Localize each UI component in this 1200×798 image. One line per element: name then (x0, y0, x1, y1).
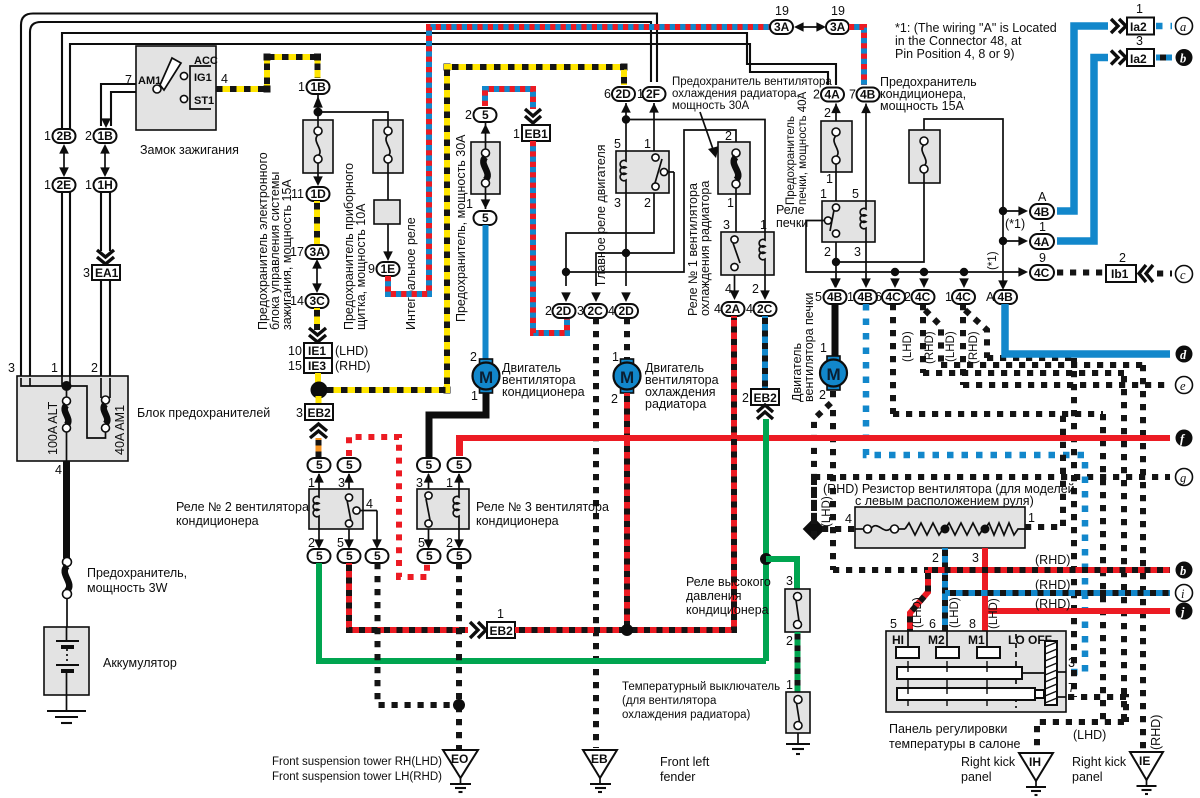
main engine relay coil (620, 151, 626, 193)
svg-text:Pin Position 4, 8 or 9): Pin Position 4, 8 or 9) (895, 47, 1015, 61)
svg-text:3A: 3A (774, 20, 790, 34)
green junction dot (760, 553, 772, 565)
svg-text:кондиционера: кондиционера (502, 385, 585, 399)
svg-text:2: 2 (742, 391, 749, 405)
svg-text:(LHD): (LHD) (988, 598, 1000, 629)
svg-text:5: 5 (456, 458, 463, 472)
svg-text:1: 1 (446, 476, 453, 490)
svg-text:b: b (1180, 564, 1186, 578)
arrow into 1D (313, 176, 323, 186)
wire dot to 4A 1 right (1003, 236, 1028, 246)
LHD labels at panel drops (vertical) (912, 597, 1000, 629)
fuse block internal wires pin3 to junction (21, 192, 70, 386)
black dashed 4C2 straight to row373 (920, 304, 926, 373)
svg-text:4: 4 (714, 302, 721, 316)
black dashed link 4C9 to Ib1 (1057, 270, 1104, 276)
arrow into 1E (383, 251, 393, 261)
big junction dot (311, 382, 328, 399)
black dashed pin7 to 1126 (1068, 697, 1126, 722)
svg-text:2: 2 (786, 634, 793, 648)
svg-text:3: 3 (338, 476, 345, 490)
connector 4B A right (1030, 190, 1054, 219)
connector 1D (291, 187, 330, 201)
svg-text:9: 9 (1039, 251, 1046, 265)
text temp switch (622, 681, 780, 721)
svg-text:2: 2 (824, 106, 831, 120)
blue dotted wire 4B1 down and right (866, 304, 1085, 672)
wire relay1 pin4 to 2A (730, 275, 740, 300)
svg-text:с левым расположением руля): с левым расположением руля) (855, 494, 1034, 508)
blue wire 4BA down to d row (1005, 304, 1170, 354)
control panel pin7 (1057, 681, 1075, 697)
svg-text:15: 15 (288, 359, 302, 373)
yellow stub junction to EB2 (316, 396, 322, 404)
svg-text:5: 5 (346, 458, 353, 472)
junction dot EB2 line (621, 624, 633, 636)
chevron into Ia2 1 (1111, 19, 1126, 33)
svg-text:1: 1 (1136, 2, 1143, 16)
arrow pair 3A-3C (312, 259, 322, 293)
svg-text:c: c (1180, 268, 1186, 282)
battery feed thick wire (63, 461, 70, 558)
svg-text:давления: давления (686, 589, 742, 603)
svg-text:M: M (620, 368, 634, 387)
relay3 ovals above (417, 458, 471, 472)
svg-text:100A ALT: 100A ALT (46, 401, 60, 455)
svg-text:Реле № 3 вентилятора: Реле № 3 вентилятора (476, 500, 609, 514)
svg-text:Right kick: Right kick (1072, 755, 1127, 769)
svg-text:2: 2 (819, 388, 826, 402)
connector 1B left (85, 129, 117, 143)
svg-text:M1: M1 (968, 633, 985, 647)
yellow wire big junction to 2D6 (327, 67, 624, 390)
relay3 coil (453, 489, 459, 529)
svg-text:*1: (The wiring "A" is Locate: *1: (The wiring "A" is Located (895, 21, 1057, 35)
svg-text:4A: 4A (1034, 235, 1050, 249)
text right kick panel 1 (961, 755, 1016, 784)
AC fuse 15A box (909, 130, 940, 186)
wire main relay pin5 to 2D6 with dot (621, 103, 631, 151)
red wire resistor pin3 to panel pin8 (972, 548, 985, 631)
circle letter e (1176, 377, 1193, 394)
blue-red wire 1E to 3A 3A to 4B7 (388, 27, 770, 294)
svg-text:(LHD): (LHD) (912, 597, 924, 628)
text fuse 30A (vertical) (454, 134, 468, 322)
heater fuse 40A box (821, 121, 852, 201)
svg-text:EB1: EB1 (525, 127, 549, 141)
black dashed 4C2 jog branch to row365 (925, 310, 941, 365)
circle letter d (1176, 346, 1193, 363)
svg-text:EA1: EA1 (95, 266, 119, 280)
connector 2C 4 (746, 302, 777, 316)
relay3 ovals below (418, 549, 471, 563)
svg-text:4B: 4B (827, 290, 843, 304)
main relay pin labels (614, 137, 651, 210)
ground IH triangle (1019, 753, 1053, 795)
svg-text:4: 4 (845, 512, 852, 526)
svg-text:2B: 2B (57, 129, 73, 143)
connector 2D 4 (608, 304, 638, 318)
svg-text:10: 10 (288, 344, 302, 358)
svg-text:IE1: IE1 (308, 344, 326, 358)
svg-text:2: 2 (308, 536, 315, 550)
svg-text:1: 1 (820, 341, 827, 355)
svg-text:4C: 4C (1034, 266, 1050, 280)
fuse 40A AM1 (101, 378, 110, 432)
fuse 30A AC box (471, 122, 500, 209)
temp switch box (786, 692, 810, 733)
blue-red wire EB1 to 2D2 (533, 141, 567, 333)
black dashed 4C1 straight to e-row (960, 304, 966, 385)
svg-text:1: 1 (847, 290, 854, 304)
ground EB triangle (583, 750, 617, 792)
black dashed 4C1 jog branch to row358 (965, 310, 987, 358)
svg-text:IG1: IG1 (194, 72, 212, 84)
relay2 pin labels (308, 476, 373, 550)
svg-text:d: d (1180, 348, 1187, 362)
connector 1B top (298, 80, 330, 94)
wire coil dot to relay1 coil (630, 120, 765, 233)
resistor box (855, 507, 1025, 548)
green wire riser EB2mini to green row (763, 419, 769, 661)
relay3 switch (425, 492, 432, 527)
blue-black dashes to circle b (1156, 55, 1172, 61)
text wiring A note (895, 21, 1057, 61)
text control panel title (889, 722, 1020, 751)
svg-text:19: 19 (775, 4, 789, 18)
svg-text:5: 5 (426, 549, 433, 563)
vertical dashed 1074 to pin7 row (1071, 358, 1077, 697)
svg-text:Ia2: Ia2 (1130, 20, 1147, 34)
vertical dashed 1143 to IE (1140, 365, 1146, 751)
green-black wire pressure switch to temp switch (795, 632, 801, 692)
radiator fan motor (614, 359, 641, 393)
red wire main f-line (459, 438, 1170, 456)
circle letter a (1176, 18, 1193, 35)
relay2 coil (313, 489, 319, 529)
svg-text:4C: 4C (915, 290, 931, 304)
control panel hatch connector (1045, 641, 1057, 705)
svg-text:1: 1 (298, 80, 305, 94)
connector 4C 9 right (1030, 251, 1054, 280)
junction dots on 4C row (891, 268, 968, 276)
svg-text:5: 5 (614, 137, 621, 151)
svg-text:2C: 2C (588, 304, 604, 318)
red dotted wire relay2 oval to relay3 pin5 oval (349, 437, 427, 577)
svg-text:Ib1: Ib1 (1111, 267, 1129, 281)
svg-text:4: 4 (725, 282, 732, 296)
svg-text:EB: EB (591, 752, 608, 766)
svg-text:5: 5 (426, 458, 433, 472)
svg-text:1: 1 (826, 172, 833, 186)
chevron left after Ib1 (1139, 265, 1153, 282)
svg-text:Предохранитель вентилятора: Предохранитель вентилятора (672, 76, 832, 88)
svg-text:panel: panel (1072, 770, 1103, 784)
pressure switch box (785, 589, 810, 632)
wire dot to 4B A right (1003, 206, 1028, 216)
main engine relay switch (652, 154, 674, 190)
svg-text:1: 1 (1039, 220, 1046, 234)
svg-text:4: 4 (55, 463, 62, 477)
wire y253 row to 2C3 (591, 172, 674, 302)
svg-text:5: 5 (346, 549, 353, 563)
wire junction to fuse2 (318, 112, 388, 120)
text heater relay (776, 203, 808, 230)
junction dot below 1B (314, 108, 323, 117)
svg-text:охлаждения радиатора: охлаждения радиатора (698, 181, 712, 316)
svg-text:2: 2 (932, 551, 939, 565)
svg-text:M: M (479, 368, 493, 387)
black dashed 4C6 down (890, 304, 896, 414)
svg-text:5: 5 (316, 458, 323, 472)
svg-text:7: 7 (849, 88, 856, 102)
dashed row y365 (941, 362, 1143, 368)
svg-text:1: 1 (1028, 511, 1035, 525)
svg-text:A: A (986, 290, 995, 304)
text fuse dashboard (vertical) (342, 163, 368, 330)
svg-text:1: 1 (786, 678, 793, 692)
connector IE1 (288, 343, 368, 358)
svg-text:Панель регулировки: Панель регулировки (889, 722, 1007, 736)
svg-text:Предохранитель: Предохранитель (785, 116, 797, 205)
fuse block box Блок предохранителей (17, 376, 128, 461)
blue-black wire resistor pin2 to panel pin6 (932, 548, 945, 631)
svg-text:Температурный выключатель: Температурный выключатель (622, 681, 780, 693)
black dashed relay2 pin4 to EO row (378, 563, 456, 705)
connector 3C (290, 294, 329, 308)
svg-text:(RHD): (RHD) (924, 331, 936, 364)
svg-text:5: 5 (890, 617, 897, 631)
connector 1H (85, 178, 117, 192)
connector 3A 19 right (826, 4, 849, 34)
svg-text:1B: 1B (311, 80, 327, 94)
svg-text:EB2: EB2 (490, 624, 514, 638)
connector 4C 6 (875, 290, 905, 304)
svg-text:HI: HI (892, 633, 904, 647)
svg-text:3: 3 (416, 476, 423, 490)
arrow pair 3A-3A horizontal (794, 22, 826, 32)
control panel bar1 (897, 667, 1045, 679)
dashed row y414 (893, 411, 1103, 417)
connector Ia2 3 (1127, 34, 1154, 66)
svg-text:6: 6 (875, 290, 882, 304)
wire pin2 dot to AC fuse bottom (836, 186, 924, 262)
arrow *1 vertical into 4BA bottom (998, 280, 1008, 290)
control panel contact labels (892, 633, 1052, 647)
arrow pair 1B-1H (100, 144, 110, 177)
svg-text:5: 5 (337, 536, 344, 550)
text heater fuse 40A (vertical) (785, 91, 809, 205)
svg-text:Front suspension tower RH(LHD): Front suspension tower RH(LHD) (272, 756, 442, 768)
fuse 100A ALT label (46, 401, 60, 455)
temp switch ground (786, 733, 810, 754)
svg-text:2F: 2F (646, 87, 660, 101)
heater relay pin labels (820, 187, 861, 259)
connector 4B 1 (847, 290, 877, 304)
svg-text:2: 2 (1119, 251, 1126, 265)
svg-text:40A AM1: 40A AM1 (113, 405, 127, 455)
svg-text:1: 1 (44, 129, 51, 143)
ignition bracket (190, 66, 211, 109)
black dashed heater motor pin2 jog to resistor column (814, 391, 833, 524)
svg-text:a: a (1180, 20, 1186, 34)
connector 5 above fuse30A (465, 108, 497, 122)
battery box (44, 627, 89, 695)
text fuse radiator fan 30A (672, 76, 832, 112)
wire heater relay left pin to 4C row (806, 221, 1024, 273)
chevron into Ia2 3 (1111, 51, 1126, 65)
svg-text:3: 3 (577, 304, 584, 318)
svg-text:8: 8 (969, 617, 976, 631)
svg-text:3: 3 (1136, 34, 1143, 48)
svg-text:3: 3 (8, 361, 15, 375)
svg-text:fender: fender (660, 770, 695, 784)
svg-text:кондиционера: кондиционера (686, 603, 769, 617)
svg-text:Реле высокого: Реле высокого (686, 575, 771, 589)
chevron into EB2 inline (470, 622, 486, 638)
yellow wire ignition pin4 to 1B (216, 57, 318, 89)
svg-text:кондиционера: кондиционера (176, 514, 259, 528)
svg-text:кондиционера: кондиционера (476, 514, 559, 528)
yellow wire 3C to IE1 (314, 308, 320, 330)
svg-text:2: 2 (725, 129, 732, 143)
relay1 coil (759, 232, 765, 275)
connector 2F 1 (637, 87, 666, 101)
blue dashes to circle a (1156, 23, 1172, 30)
svg-text:4: 4 (746, 302, 753, 316)
heater relay box (822, 201, 875, 242)
resistor pin labels (845, 511, 1035, 526)
circle letter b bottom (1176, 562, 1193, 579)
svg-text:Интегральное реле: Интегральное реле (404, 217, 418, 330)
wire dot566 to fuse radiator 30A (566, 130, 736, 272)
svg-text:4B: 4B (858, 290, 874, 304)
svg-text:19: 19 (831, 4, 845, 18)
dashes to circle c (1157, 271, 1172, 277)
svg-text:(RHD): (RHD) (1149, 715, 1163, 750)
svg-text:(LHD): (LHD) (821, 496, 833, 527)
wire relay1 pin2 to 2C (760, 275, 770, 300)
svg-text:(LHD): (LHD) (945, 331, 957, 362)
svg-text:Right kick: Right kick (961, 755, 1016, 769)
text front left fender (660, 755, 710, 784)
svg-text:2E: 2E (57, 178, 72, 192)
text main engine relay (vertical) (594, 144, 608, 285)
svg-text:5: 5 (374, 549, 381, 563)
control panel box (886, 631, 1066, 712)
svg-text:(RHD): (RHD) (335, 359, 370, 373)
svg-text:зажигания, мощность 15А: зажигания, мощность 15А (280, 179, 294, 330)
chevron into EA1 (97, 250, 114, 264)
blue-black wire 2C4 to EB2 (762, 316, 768, 389)
arrow into 4C9 (1018, 267, 1028, 277)
svg-text:1: 1 (612, 350, 619, 364)
svg-text:щитка, мощность 10А: щитка, мощность 10А (354, 203, 368, 330)
svg-text:2: 2 (465, 108, 472, 122)
svg-text:1: 1 (945, 290, 952, 304)
wire AC fuse top to *1 vertical (924, 119, 1003, 288)
blue-red wire 3A to 4B7 (849, 27, 864, 85)
svg-text:1: 1 (760, 218, 767, 232)
fuse dashboard 10A box (373, 120, 403, 200)
svg-text:3: 3 (614, 196, 621, 210)
blue wire to AC fan motor (483, 225, 489, 362)
red-black wire radiator motor pin2 to EB2 line (624, 393, 630, 630)
svg-text:2: 2 (752, 282, 759, 296)
relay2 ovals below (308, 549, 389, 563)
heater relay coil (860, 201, 866, 242)
horizontal dashed to IH (1037, 722, 1124, 752)
relay1 radiator fan box (721, 232, 774, 275)
svg-text:4B: 4B (860, 88, 876, 102)
svg-text:Предохранитель,: Предохранитель, (87, 566, 187, 580)
fuse 40A AM1 label (113, 405, 127, 455)
svg-text:мощность 3W: мощность 3W (87, 581, 168, 595)
wire main relay pin2 to dot566 (561, 193, 654, 302)
ground IE triangle (1130, 752, 1163, 794)
svg-text:5: 5 (482, 108, 489, 122)
heater relay switch (824, 204, 839, 237)
relay2 switch (345, 494, 377, 527)
yellow stub IE3 to big junction (315, 373, 321, 384)
wire EA1 to fuse block pin2 (101, 280, 110, 378)
ignition lever (160, 58, 181, 90)
resistor input junction dot (803, 518, 826, 541)
control panel pin numbers (890, 617, 976, 631)
connector 4B A (986, 290, 1017, 304)
svg-text:1: 1 (820, 187, 827, 201)
svg-text:A: A (1038, 190, 1047, 204)
circle letter j (1176, 603, 1193, 620)
thick black wire AC motor pin1 to relay3 (429, 393, 486, 457)
control panel LO dashed line (1015, 634, 1017, 708)
radiator motor pin labels (611, 350, 619, 406)
svg-text:Front suspension tower LH(RHD): Front suspension tower LH(RHD) (272, 771, 442, 783)
arrow pair 2B-2E (59, 144, 69, 177)
svg-text:3: 3 (786, 574, 793, 588)
e row dashed to circle e (963, 382, 1170, 388)
relay3 AC fan box (417, 489, 469, 529)
svg-text:вентилятора печки: вентилятора печки (802, 293, 816, 402)
dashes junction to resistor pin4 (822, 526, 855, 532)
svg-text:Реле: Реле (776, 203, 805, 217)
blue thick wire 4BA to Ia2 1 (1057, 26, 1108, 211)
svg-text:печки: печки (776, 216, 808, 230)
svg-text:5: 5 (316, 549, 323, 563)
relay1 pin labels (723, 218, 767, 296)
labels LHD RHD mesh (902, 331, 980, 364)
svg-text:2A: 2A (725, 302, 741, 316)
wire 1H to EA1 (101, 192, 110, 251)
chevron below EB2 mini (757, 405, 773, 419)
vertical dashed 1124 down (1121, 376, 1127, 722)
wire 4A to heater fuse with arrow (824, 104, 841, 122)
fuse radiator pin labels (725, 129, 734, 210)
yellow corner squares (264, 54, 628, 394)
svg-text:4C: 4C (956, 290, 972, 304)
red-black drop to panel pin5 (910, 570, 928, 631)
connector EB2 main (296, 404, 333, 420)
chevron below EB2 (310, 424, 327, 438)
svg-text:M: M (827, 365, 841, 384)
svg-text:1H: 1H (98, 178, 113, 192)
svg-text:печки, мощность 40А: печки, мощность 40А (797, 91, 809, 205)
svg-text:2: 2 (446, 536, 453, 550)
connector 2C 3 (577, 304, 607, 318)
wire heater relay pin2 to 4B5 with dot (831, 242, 841, 288)
pressure switch pin labels (786, 574, 793, 648)
svg-text:Замок зажигания: Замок зажигания (140, 143, 239, 157)
